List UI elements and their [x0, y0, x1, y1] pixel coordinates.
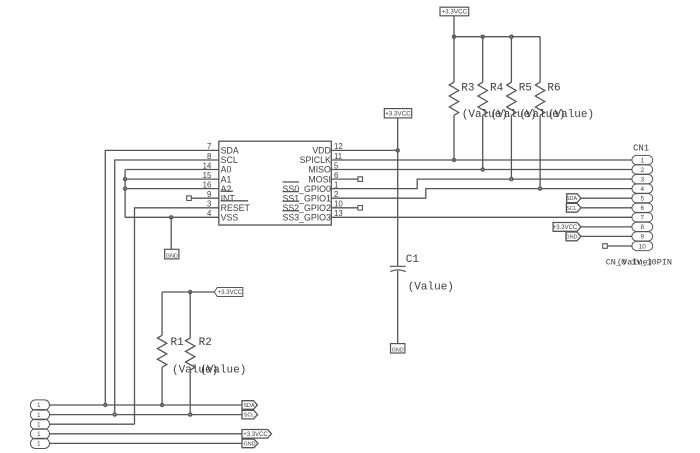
junction bank R4: [481, 35, 485, 39]
netflag GND (CN1-9): [566, 232, 581, 241]
svg-text:1: 1: [37, 442, 41, 448]
svg-text:4: 4: [641, 186, 645, 193]
connector CN1 body (10 pins): [632, 155, 653, 250]
power flag +3.3VCC (R1-R2): [214, 288, 243, 297]
wire VSS (pin4): [125, 216, 219, 218]
junction R2 top: [188, 290, 192, 294]
svg-text:SS2_GPIO2: SS2_GPIO2: [282, 203, 331, 213]
svg-text:SS1_GPIO1: SS1_GPIO1: [282, 193, 331, 203]
svg-text:+3.3VCC: +3.3VCC: [385, 110, 411, 117]
power +3.3VCC (above C1): [384, 109, 411, 118]
no-connect MOSI: [358, 177, 363, 182]
svg-text:10: 10: [639, 243, 647, 250]
resistor R6: [535, 37, 544, 189]
svg-text:1: 1: [37, 403, 41, 409]
wire A0 (pin14): [125, 169, 219, 171]
svg-text:R5: R5: [519, 83, 532, 95]
wire bottom GND: [50, 442, 243, 444]
svg-text:SDA: SDA: [566, 196, 577, 202]
junction SDA drop: [103, 403, 107, 407]
svg-text:GND: GND: [566, 234, 578, 240]
svg-text:8: 8: [641, 224, 645, 231]
ground GND (C1): [391, 344, 405, 354]
svg-text:(Value): (Value): [200, 365, 246, 377]
svg-text:SDA: SDA: [243, 403, 254, 409]
wire MISO net (pin5 to CN1-2): [331, 169, 632, 171]
wire MOSI stub (pin6): [331, 178, 358, 180]
svg-text:7: 7: [641, 215, 645, 222]
IC U1 SS0-SS3 active-low overbars: [283, 182, 300, 211]
junction A1: [123, 177, 127, 181]
IC U1 right pin names: [282, 146, 331, 223]
svg-text:(Value): (Value): [617, 258, 653, 268]
svg-text:R2: R2: [199, 337, 212, 349]
wire RESET net (pin3 to bottom bus): [135, 208, 219, 424]
wire bottom RESET: [50, 423, 135, 425]
wire A0-A1-A2-VSS vertical: [124, 170, 126, 218]
wire SDA net (pin7 to bottom bus): [105, 150, 219, 405]
svg-text:+3.3VCC: +3.3VCC: [243, 432, 268, 438]
IC U1 left pin numbers: [203, 142, 212, 218]
svg-text:A0: A0: [221, 165, 232, 175]
wire no-connect to CN1-10: [607, 245, 632, 247]
svg-text:(Value): (Value): [548, 109, 594, 121]
junction VSS-GND: [169, 215, 173, 219]
no-connect SS2_GPIO2: [358, 206, 363, 211]
IC U1 INT overline: [221, 190, 233, 192]
svg-text:SCL: SCL: [221, 155, 238, 165]
junction bank R5: [509, 35, 513, 39]
svg-text:R6: R6: [547, 83, 560, 95]
wire C1 to GND: [397, 271, 399, 344]
svg-text:A1: A1: [221, 174, 232, 184]
svg-text:SS3_GPIO3: SS3_GPIO3: [282, 213, 331, 223]
resistor R3: [449, 37, 458, 160]
junction R6 bottom: [538, 186, 542, 190]
wire +3.3VCC to bank bus: [454, 16, 540, 37]
connector J1 body (5 pins): [30, 400, 49, 449]
connector J1 pin numbers: [37, 403, 41, 447]
wire SDA flag to CN1-5: [581, 197, 632, 199]
netflag SCL (CN1-6): [566, 203, 581, 212]
svg-text:2: 2: [641, 167, 645, 174]
power flag +3.3VCC (bottom): [242, 430, 272, 439]
svg-text:VDD: VDD: [312, 146, 331, 156]
svg-text:5: 5: [641, 196, 645, 203]
junction VDD node: [396, 148, 400, 152]
ground GND (VSS): [165, 249, 179, 259]
svg-text:SPICLK: SPICLK: [300, 155, 331, 165]
wire SCL net (pin8 to bottom bus): [115, 160, 219, 415]
wire bottom +3.3VCC: [50, 433, 243, 435]
resistor R1: [157, 292, 166, 405]
wire SS1_GPIO1 net (pin2 to CN1-4): [331, 189, 632, 199]
wire VSS to GND: [170, 217, 172, 249]
svg-text:1: 1: [641, 157, 645, 164]
netflag GND (bottom): [242, 439, 258, 448]
svg-text:MOSI: MOSI: [308, 174, 330, 184]
wire GND flag to CN1-9: [581, 235, 632, 237]
svg-text:9: 9: [641, 234, 645, 241]
svg-text:1: 1: [37, 432, 41, 438]
svg-text:1: 1: [37, 422, 41, 428]
svg-text:INT: INT: [221, 193, 236, 203]
junction R4 bottom: [481, 167, 485, 171]
netflag SDA (CN1-5): [566, 194, 581, 203]
junction R5 bottom: [509, 177, 513, 181]
wire SCL flag to CN1-6: [581, 207, 632, 209]
wire +3.3VCC to VDD node: [397, 118, 399, 150]
IC U1 right pin numbers: [334, 142, 343, 218]
svg-text:+3.3VCC: +3.3VCC: [553, 225, 578, 231]
junction R2 bottom: [188, 412, 192, 416]
svg-text:6: 6: [641, 205, 645, 212]
power +3.3VCC (R3-R6 bank): [440, 7, 469, 16]
netflag SDA (bottom): [242, 401, 257, 410]
wire bottom SDA bus: [50, 404, 243, 406]
svg-text:R1: R1: [171, 337, 185, 349]
IC U1 body: [219, 141, 331, 225]
svg-text:+3.3VCC: +3.3VCC: [441, 9, 467, 16]
wire +3.3VCC flag to CN1-8: [581, 226, 632, 228]
wire SPICLK net (pin11 to CN1-1): [331, 159, 632, 161]
svg-text:R3: R3: [461, 83, 474, 95]
svg-text:1: 1: [37, 413, 41, 419]
IC U1 left pin names: [221, 146, 251, 223]
svg-text:SCL: SCL: [244, 413, 255, 419]
junction R3 bottom: [452, 158, 456, 162]
resistor R5: [507, 37, 516, 179]
svg-text:CN1: CN1: [633, 144, 649, 154]
svg-text:SS0_GPIO0: SS0_GPIO0: [282, 184, 331, 194]
junction A2: [123, 186, 127, 190]
junction SCL drop: [113, 412, 117, 416]
wire R1-R2 top tie: [162, 291, 214, 293]
wire A2 (pin16): [125, 188, 219, 190]
svg-text:GND: GND: [166, 254, 178, 260]
wire VDD (pin12): [331, 149, 397, 151]
wire SS2_GPIO2 stub (pin10): [331, 207, 358, 209]
connector CN1 pin numbers: [639, 157, 647, 250]
wire VDD node to C1: [397, 150, 399, 266]
svg-text:RESET: RESET: [221, 203, 251, 213]
wire INT stub (pin9): [191, 197, 219, 199]
svg-text:R4: R4: [490, 83, 504, 95]
no-connect CN1-10: [603, 244, 608, 249]
svg-text:MISO: MISO: [308, 165, 331, 175]
svg-text:GND: GND: [392, 348, 404, 354]
resistor R2: [186, 292, 195, 415]
netflag SCL (bottom): [242, 410, 258, 419]
svg-text:VSS: VSS: [221, 213, 239, 223]
svg-text:C1: C1: [406, 254, 420, 266]
capacitor C1: [390, 266, 406, 271]
wire A1 (pin15): [125, 178, 219, 180]
no-connect INT: [187, 196, 192, 201]
svg-text:+3.3VCC: +3.3VCC: [218, 290, 243, 296]
svg-text:3: 3: [641, 176, 645, 183]
IC U1 RESET overline: [221, 200, 249, 202]
svg-text:SDA: SDA: [221, 146, 239, 156]
junction R1 bottom: [160, 403, 164, 407]
wire SS0_GPIO0 net (pin1 to CN1-3): [331, 179, 632, 189]
netflag +3.3VCC (CN1-8): [553, 223, 581, 232]
svg-text:SCL: SCL: [566, 206, 577, 212]
resistor R4: [478, 37, 487, 170]
junction bank R3: [452, 35, 456, 39]
wire SS3_GPIO3 net (pin13 to CN1-7): [331, 216, 632, 218]
svg-text:A2: A2: [221, 184, 232, 194]
svg-text:GND: GND: [244, 441, 256, 447]
wire bottom SCL bus: [50, 414, 243, 416]
svg-text:(Value): (Value): [408, 281, 454, 293]
